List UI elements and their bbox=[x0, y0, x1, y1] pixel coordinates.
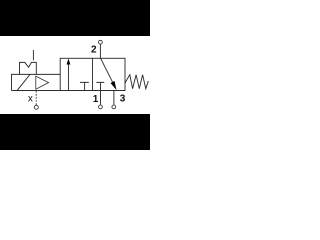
port 3 stem bbox=[113, 91, 115, 105]
flow arrow shaft (left square) bbox=[67, 65, 69, 91]
svg-text:x: x bbox=[28, 94, 33, 105]
port 1 stem bbox=[100, 91, 102, 105]
common bottom edge line bbox=[12, 90, 125, 92]
blocked port T (right square) bbox=[96, 82, 104, 90]
svg-text:1: 1 bbox=[93, 94, 99, 105]
svg-text:3: 3 bbox=[120, 94, 126, 105]
port 1 circle bbox=[99, 105, 103, 109]
pilot triangle bbox=[36, 76, 49, 89]
vertical flow arrowhead (filled) bbox=[67, 59, 71, 65]
electrical tick line bbox=[32, 50, 34, 60]
flow diagonal 2->3 (right square) bbox=[101, 58, 113, 83]
3/2-way solenoid pneumatic valve schematic (FluidSIM-style icon) bbox=[0, 0, 150, 150]
diagonal flow arrowhead (filled) bbox=[111, 81, 117, 90]
solenoid diagonal bbox=[17, 74, 30, 90]
bottom transparent band (reads as black) bbox=[0, 114, 150, 150]
chamber divider bbox=[92, 58, 94, 90]
blocked port T (left square) bbox=[80, 82, 89, 90]
background white band bbox=[0, 0, 150, 150]
pilot port dashed stem bbox=[35, 91, 37, 105]
port 3 circle bbox=[112, 105, 116, 109]
pilot port circle bbox=[34, 105, 38, 109]
top transparent band (reads as black) bbox=[0, 0, 150, 36]
port 2 stem bbox=[99, 44, 101, 58]
return spring bbox=[125, 75, 148, 89]
port 2 circle bbox=[99, 40, 103, 44]
svg-text:2: 2 bbox=[91, 45, 97, 56]
manual override W-box bbox=[20, 62, 37, 74]
solenoid box Y1 bbox=[12, 74, 61, 90]
main valve body rect bbox=[60, 58, 125, 90]
